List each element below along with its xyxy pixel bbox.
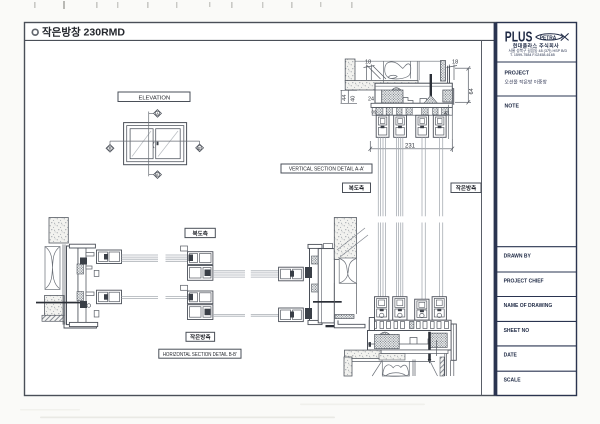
vertical section detail label box	[281, 164, 372, 173]
lintel insulation blob	[383, 62, 419, 83]
right jamb big box	[318, 249, 334, 323]
sill body lower lip	[381, 350, 448, 354]
svg-text:40: 40	[351, 96, 357, 102]
left wall cross-hatched finish bar	[42, 315, 64, 321]
slab insulation bowtie	[382, 361, 409, 376]
sill body middle notch	[368, 338, 438, 345]
row1 meeting stile lower sash	[188, 266, 213, 281]
jamb bottom cap bar	[69, 322, 97, 326]
right jamb top small fittings	[324, 244, 333, 249]
sill frame body	[368, 331, 453, 351]
row2 glass right segment	[213, 314, 279, 316]
svg-text:44: 44	[342, 95, 348, 101]
svg-text:231: 231	[405, 143, 416, 149]
right wall insulation bowtie	[340, 259, 356, 284]
small room side label (top)	[451, 183, 481, 193]
svg-text:오션폴 작은방 이중창: 오션폴 작은방 이중창	[505, 79, 548, 86]
sill sash 4	[432, 297, 446, 320]
dim 18 right	[447, 65, 458, 81]
head frame bottom notches	[403, 98, 427, 104]
exterior trim channel	[448, 66, 454, 105]
track blocks row	[376, 108, 448, 115]
jamb top cap bar	[69, 244, 95, 248]
svg-text:SCALE: SCALE	[504, 378, 522, 384]
svg-text:24: 24	[368, 97, 374, 103]
sill right plate	[451, 324, 456, 360]
slab top line	[352, 360, 435, 362]
section marker A'	[149, 171, 162, 179]
svg-text:HORIZONTAL SECTION DETAIL B-B': HORIZONTAL SECTION DETAIL B-B'	[163, 351, 237, 358]
elevation window outer frame	[124, 123, 187, 165]
elevation window inner frame	[127, 126, 184, 162]
right wall upper speckle	[334, 218, 356, 260]
right plate lines below	[451, 360, 454, 376]
left wall lower speckle block	[45, 296, 65, 316]
left wall insulation box	[45, 247, 60, 290]
svg-text:18: 18	[365, 60, 371, 66]
frame insulation hump	[392, 88, 401, 90]
right wall bottom return channel	[334, 320, 365, 327]
svg-text:A: A	[156, 112, 159, 116]
concrete slab band	[345, 81, 418, 91]
slab break diagonal left	[372, 360, 382, 376]
svg-text:복도측: 복도측	[349, 184, 364, 192]
section marker B	[106, 141, 114, 152]
head sash 4	[433, 115, 446, 137]
elevation latch arc	[153, 142, 154, 148]
concrete speckle band left of sill	[345, 350, 382, 358]
jamb right column	[78, 248, 86, 323]
corridor side label (horiz section)	[185, 228, 215, 237]
anchor bolt	[430, 74, 432, 107]
svg-text:64: 64	[469, 88, 475, 94]
svg-text:DRAWN BY: DRAWN BY	[504, 254, 532, 260]
row2 meeting stile upper sash	[188, 291, 213, 304]
steel anchor line	[36, 302, 80, 304]
section line B-B' horizontal	[110, 140, 200, 142]
scanner tick marks top edge	[34, 1, 353, 9]
elevation handle	[157, 142, 159, 146]
head sash 2	[394, 115, 407, 137]
svg-text:VERTICAL SECTION DETAIL A-A': VERTICAL SECTION DETAIL A-A'	[289, 166, 364, 172]
row1 right jamb interlock	[279, 267, 304, 281]
right jamb frame	[310, 245, 322, 324]
glass line group 2 upper	[397, 137, 403, 216]
section line A-A' vertical	[148, 112, 150, 177]
drawing area right boundary	[481, 40, 483, 395]
glass line group 3 lower	[422, 223, 425, 300]
title block field borders	[497, 23, 577, 396]
title bar line	[25, 39, 495, 41]
left wall insulation bowtie	[46, 247, 60, 289]
right jamb top cap	[308, 244, 322, 248]
right jamb spring blocks	[312, 256, 319, 292]
row2 right jamb interlock	[279, 308, 304, 322]
right wall dotted band	[335, 315, 354, 319]
svg-text:A': A'	[156, 173, 160, 177]
sill insulation block right	[429, 333, 447, 347]
mortar speckle under sill	[379, 354, 405, 360]
jamb keeper dark blob bottom	[80, 301, 87, 308]
elevation label box	[118, 92, 190, 102]
sill body left dark mark	[369, 342, 371, 347]
slab break diagonal right	[430, 360, 438, 376]
svg-text:작은방창 230RMD: 작은방창 230RMD	[42, 26, 125, 39]
svg-text:PROJECT: PROJECT	[505, 71, 530, 77]
corridor side label (top)	[343, 183, 371, 193]
head sash 1	[376, 115, 389, 137]
sill insulation hump left	[380, 332, 390, 334]
anchor base hatch	[424, 96, 438, 104]
svg-text:복도측: 복도측	[192, 229, 207, 237]
row1 jamb interlock profile	[97, 250, 122, 264]
svg-text:PLUS: PLUS	[505, 27, 533, 44]
left concrete wall upper block	[49, 218, 68, 244]
sill left end cap	[369, 318, 374, 334]
sub rail band	[371, 103, 452, 107]
concrete wall strip below left	[344, 357, 352, 376]
section marker B'	[196, 141, 204, 152]
glass line group 2 lower	[397, 223, 403, 297]
keeper rollers	[87, 304, 91, 308]
slab diagonal hatch strip right	[440, 357, 444, 376]
left dim lines	[341, 90, 358, 103]
svg-text:NAME OF DRAWING: NAME OF DRAWING	[504, 303, 553, 309]
dim 64 right	[455, 66, 471, 104]
right wall insulation box	[339, 258, 356, 283]
right steel anchor line	[313, 301, 342, 303]
svg-text:작은방측: 작은방측	[190, 333, 211, 341]
sill track band	[369, 320, 451, 330]
right wall edge lines below	[334, 283, 356, 320]
row2 glass left segment	[122, 297, 188, 299]
sill sash 3	[415, 299, 429, 320]
svg-text:NOTE: NOTE	[505, 104, 520, 110]
left small frame step	[375, 90, 382, 103]
glass line group 4 lower	[440, 223, 443, 297]
sill anchor bolt	[428, 332, 431, 361]
svg-text:ELEVATION: ELEVATION	[138, 95, 170, 101]
horizontal section detail label box	[159, 349, 241, 358]
svg-text:B': B'	[198, 146, 202, 150]
head frame inner top line	[375, 85, 452, 87]
jamb mid stub top	[94, 270, 99, 276]
exterior finish hatched strip	[441, 61, 446, 82]
svg-text:DATE: DATE	[504, 352, 518, 358]
logo fish PETRA	[536, 33, 569, 40]
small room side label (horiz section)	[186, 332, 215, 341]
elevation right sash	[156, 129, 181, 159]
jamb spring blocks	[77, 264, 84, 301]
track band outline	[372, 108, 452, 116]
right wall break diagonals	[337, 228, 368, 257]
glass line group 1 upper	[378, 137, 385, 216]
sill insulation block left	[375, 334, 400, 348]
right jamb bottom cap	[308, 320, 322, 324]
row1 meeting stile upper sash	[188, 252, 213, 265]
jamb keeper dark blob top	[80, 258, 87, 265]
concrete wall vertical strip	[345, 59, 355, 81]
head sash 3	[416, 115, 429, 137]
head frame body	[375, 83, 452, 103]
left jamb frame	[67, 246, 79, 325]
svg-text:T. 1599-7584 F.02458-6165: T. 1599-7584 F.02458-6165	[510, 53, 555, 57]
slab double vertical line	[413, 360, 415, 377]
sill sash 1	[375, 297, 389, 320]
right jamb keeper blob	[305, 267, 312, 278]
track upstands	[373, 322, 449, 329]
left jamb wall flange	[63, 244, 65, 324]
lintel area border lines	[355, 60, 441, 62]
elevation left sash	[130, 129, 153, 159]
elevation glass diagonal left	[132, 131, 151, 157]
right frame edge lines below trim	[449, 105, 453, 139]
svg-text:SHEET NO: SHEET NO	[504, 328, 530, 334]
row2 meeting stile lower sash	[188, 305, 213, 320]
dim 231	[369, 139, 455, 152]
left wall bottom return channel	[64, 321, 97, 328]
row2 stile top fitting	[181, 285, 188, 290]
svg-text:PETRA: PETRA	[540, 35, 557, 41]
glass line group 1 lower	[378, 223, 385, 297]
svg-text:18: 18	[452, 60, 458, 66]
right wall bottom dark bar	[326, 325, 337, 327]
dim 18 left	[364, 65, 387, 81]
row1 stile top fitting	[181, 246, 188, 251]
svg-text:09: 09	[372, 110, 378, 115]
svg-text:B: B	[109, 147, 112, 151]
jamb small fittings	[86, 253, 94, 296]
slab right edge lines	[437, 340, 447, 376]
elevation glass diagonal right	[158, 131, 178, 157]
row1 glass right segment	[213, 271, 279, 277]
section marker A	[149, 110, 162, 118]
glass line group 4 upper	[440, 137, 443, 216]
frame insulation block right	[443, 90, 453, 102]
svg-text:PROJECT CHIEF: PROJECT CHIEF	[504, 279, 544, 285]
frame insulation block left	[382, 90, 403, 103]
row2 jamb interlock profile	[97, 290, 122, 304]
sill sash 2	[393, 297, 407, 320]
row1 glass left segment	[122, 255, 188, 261]
svg-text:작은방측: 작은방측	[456, 184, 477, 192]
title icon circle	[32, 29, 38, 35]
title block thick left bar	[494, 23, 497, 396]
jamb mid stub bottom	[94, 311, 99, 318]
scanner shadow band bottom	[40, 417, 335, 419]
glass line group 3 upper	[422, 137, 425, 216]
